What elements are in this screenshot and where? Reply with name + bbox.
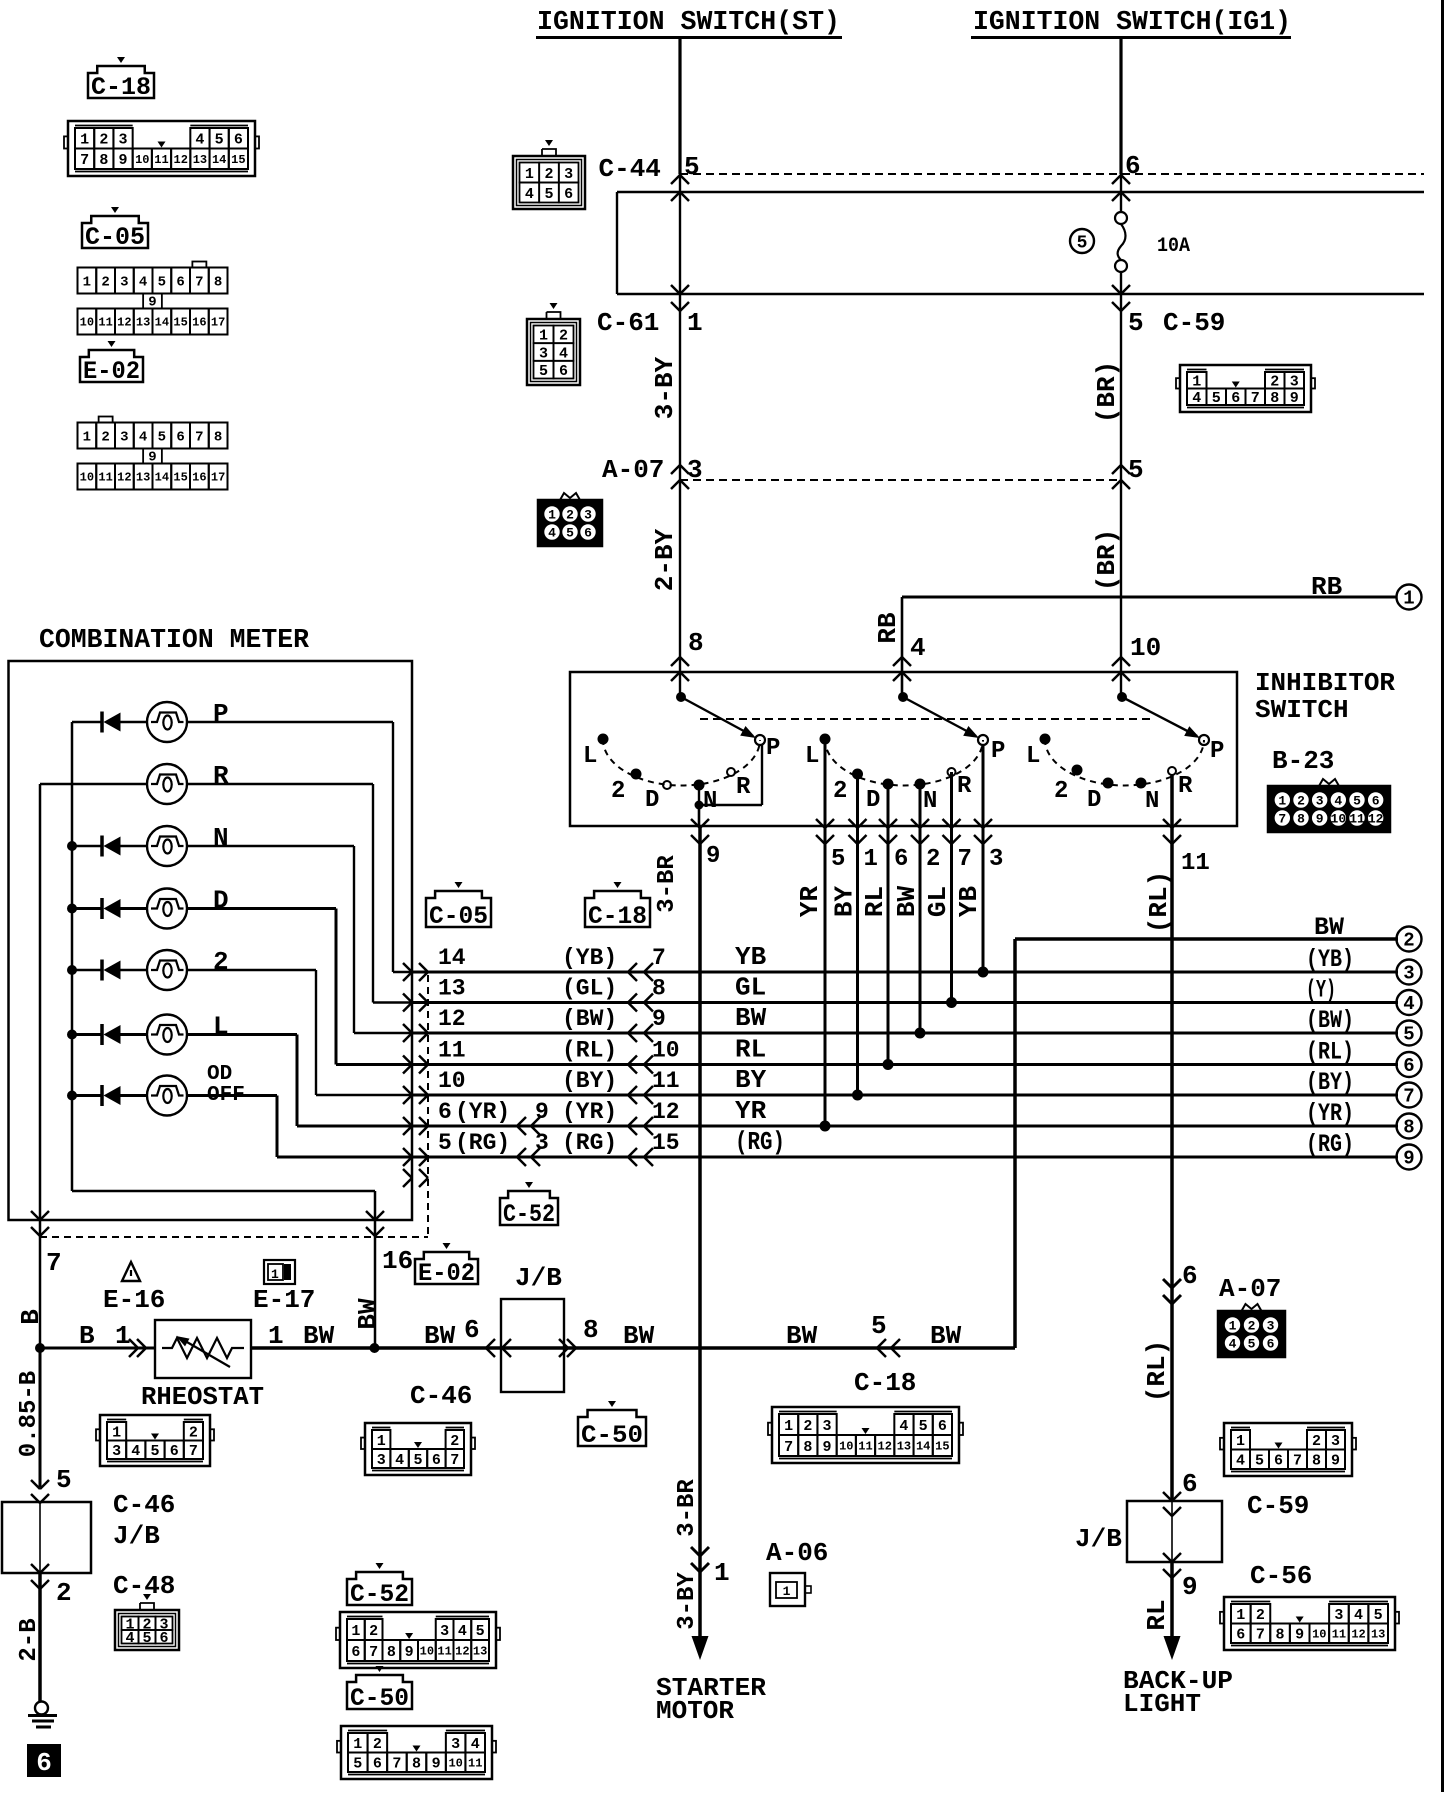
svg-text:1: 1 — [1236, 1607, 1245, 1624]
svg-text:6: 6 — [1274, 1453, 1283, 1470]
svg-text:8: 8 — [583, 1315, 599, 1345]
svg-text:12: 12 — [1351, 1627, 1365, 1641]
svg-text:3: 3 — [1331, 1433, 1340, 1450]
svg-text:6: 6 — [1182, 1261, 1198, 1291]
svg-text:7: 7 — [46, 1248, 62, 1278]
svg-text:6: 6 — [1231, 390, 1240, 407]
svg-text:(GL): (GL) — [562, 976, 617, 1002]
svg-text:C-59: C-59 — [1247, 1491, 1309, 1521]
svg-text:BW: BW — [353, 1298, 383, 1330]
svg-text:3: 3 — [112, 1443, 121, 1460]
svg-text:6: 6 — [176, 429, 184, 445]
svg-text:6: 6 — [584, 526, 592, 541]
svg-text:6: 6 — [432, 1452, 441, 1469]
svg-text:RB: RB — [1311, 572, 1343, 602]
svg-text:6: 6 — [464, 1315, 480, 1345]
svg-text:RL: RL — [735, 1035, 766, 1065]
svg-text:(RL): (RL) — [562, 1038, 617, 1064]
svg-text:C-61: C-61 — [597, 308, 659, 338]
svg-text:BW: BW — [786, 1321, 818, 1351]
svg-text:C-46: C-46 — [113, 1490, 175, 1520]
svg-text:13: 13 — [438, 976, 466, 1002]
svg-text:8: 8 — [1403, 1117, 1414, 1139]
svg-text:9: 9 — [119, 152, 128, 169]
svg-text:6: 6 — [234, 132, 243, 149]
svg-text:7: 7 — [392, 1756, 401, 1773]
svg-text:(BY): (BY) — [562, 1068, 617, 1094]
svg-text:C-46: C-46 — [410, 1381, 472, 1411]
svg-text:E-02: E-02 — [418, 1259, 475, 1288]
svg-text:5: 5 — [1255, 1453, 1264, 1470]
svg-text:N: N — [923, 788, 937, 815]
svg-text:11: 11 — [98, 471, 112, 485]
svg-text:2: 2 — [369, 1623, 378, 1640]
svg-text:(RL): (RL) — [1144, 871, 1174, 933]
svg-text:2: 2 — [803, 1418, 812, 1435]
svg-text:10A: 10A — [1157, 235, 1190, 258]
svg-text:6: 6 — [564, 186, 573, 203]
svg-text:C-59: C-59 — [1163, 308, 1225, 338]
svg-text:6: 6 — [1403, 1055, 1414, 1077]
svg-text:INHIBITOR: INHIBITOR — [1255, 668, 1395, 698]
svg-text:1: 1 — [714, 1558, 730, 1588]
svg-text:6: 6 — [159, 1630, 168, 1647]
svg-text:4: 4 — [131, 1443, 140, 1460]
svg-text:2: 2 — [1403, 930, 1414, 952]
svg-text:(YR): (YR) — [455, 1099, 510, 1125]
svg-text:8: 8 — [1276, 1627, 1285, 1644]
svg-text:5: 5 — [566, 526, 574, 541]
svg-text:C-18: C-18 — [854, 1368, 916, 1398]
svg-text:9: 9 — [1182, 1572, 1198, 1602]
svg-text:1: 1 — [83, 429, 91, 445]
svg-text:(BW): (BW) — [1306, 1006, 1354, 1035]
svg-text:10: 10 — [448, 1756, 462, 1770]
svg-text:6: 6 — [1267, 1337, 1275, 1352]
svg-text:17: 17 — [211, 471, 225, 485]
svg-text:17: 17 — [211, 316, 225, 330]
svg-text:RHEOSTAT: RHEOSTAT — [141, 1382, 264, 1412]
svg-text:1: 1 — [864, 846, 878, 873]
svg-text:5: 5 — [1353, 794, 1361, 809]
svg-text:3: 3 — [1290, 374, 1299, 391]
svg-text:9: 9 — [405, 1644, 414, 1661]
svg-text:2: 2 — [1297, 794, 1305, 809]
svg-text:13: 13 — [193, 153, 207, 167]
svg-text:11: 11 — [1349, 812, 1365, 827]
svg-text:7: 7 — [369, 1644, 378, 1661]
svg-text:YB: YB — [735, 942, 767, 972]
svg-text:C-52: C-52 — [503, 1200, 555, 1229]
svg-text:BW: BW — [303, 1321, 335, 1351]
svg-text:RL: RL — [860, 886, 890, 917]
svg-text:2: 2 — [559, 328, 568, 345]
svg-text:10: 10 — [652, 1038, 680, 1064]
svg-text:BW: BW — [892, 886, 922, 918]
svg-text:14: 14 — [916, 1440, 930, 1454]
svg-text:GL: GL — [923, 886, 953, 917]
svg-text:2-BY: 2-BY — [650, 528, 680, 591]
svg-text:3-BY: 3-BY — [674, 1572, 701, 1630]
svg-text:4: 4 — [559, 345, 568, 362]
svg-text:N: N — [703, 788, 717, 815]
svg-text:9: 9 — [706, 843, 720, 870]
svg-text:4: 4 — [1403, 993, 1414, 1015]
svg-text:E-16: E-16 — [103, 1285, 165, 1315]
svg-text:6: 6 — [170, 1443, 179, 1460]
svg-text:2: 2 — [101, 429, 109, 445]
svg-text:2: 2 — [1312, 1433, 1321, 1450]
svg-text:(RG): (RG) — [1306, 1130, 1354, 1159]
svg-text:1: 1 — [1192, 374, 1201, 391]
svg-text:1: 1 — [1229, 1319, 1237, 1334]
svg-text:1: 1 — [687, 308, 703, 338]
svg-text:6: 6 — [1236, 1627, 1245, 1644]
svg-text:3: 3 — [564, 166, 573, 183]
svg-text:6: 6 — [373, 1756, 382, 1773]
svg-text:7: 7 — [450, 1452, 459, 1469]
svg-text:13: 13 — [136, 316, 150, 330]
svg-text:8: 8 — [803, 1439, 812, 1456]
svg-text:12: 12 — [455, 1645, 469, 1659]
svg-text:1: 1 — [1236, 1433, 1245, 1450]
svg-text:4: 4 — [1236, 1453, 1245, 1470]
svg-text:1: 1 — [525, 166, 534, 183]
svg-text:1: 1 — [1403, 588, 1414, 610]
svg-text:5: 5 — [56, 1465, 72, 1495]
svg-text:12: 12 — [174, 153, 188, 167]
svg-text:10: 10 — [839, 1440, 853, 1454]
svg-text:1: 1 — [784, 1418, 793, 1435]
svg-text:BY: BY — [830, 886, 860, 918]
svg-text:15: 15 — [935, 1440, 949, 1454]
svg-text:2: 2 — [56, 1578, 72, 1608]
svg-text:MOTOR: MOTOR — [656, 1696, 734, 1726]
svg-text:SWITCH: SWITCH — [1255, 695, 1349, 725]
svg-text:2: 2 — [833, 778, 847, 805]
svg-text:J/B: J/B — [515, 1263, 562, 1293]
svg-text:10: 10 — [1130, 633, 1161, 663]
svg-text:N: N — [213, 823, 229, 853]
svg-text:J/B: J/B — [113, 1521, 160, 1551]
svg-text:9: 9 — [1290, 390, 1299, 407]
svg-text:IGNITION SWITCH(ST): IGNITION SWITCH(ST) — [537, 7, 840, 37]
svg-text:5: 5 — [1403, 1024, 1414, 1046]
svg-text:5: 5 — [1077, 233, 1088, 253]
svg-text:(YR): (YR) — [1306, 1099, 1354, 1128]
svg-text:2: 2 — [1054, 778, 1068, 805]
svg-text:11: 11 — [1332, 1627, 1346, 1641]
svg-text:7: 7 — [1251, 390, 1260, 407]
svg-text:16: 16 — [382, 1246, 413, 1276]
svg-text:11: 11 — [154, 153, 168, 167]
svg-text:R: R — [213, 761, 229, 791]
svg-text:9: 9 — [535, 1099, 549, 1125]
svg-text:7: 7 — [652, 945, 666, 971]
svg-text:1: 1 — [271, 1267, 279, 1282]
svg-text:1: 1 — [548, 508, 556, 523]
svg-text:5: 5 — [1128, 455, 1144, 485]
svg-text:10: 10 — [438, 1068, 466, 1094]
svg-text:(BY): (BY) — [1306, 1068, 1354, 1097]
svg-text:1: 1 — [112, 1425, 121, 1442]
svg-text:C-05: C-05 — [85, 223, 145, 252]
svg-text:C-18: C-18 — [91, 73, 151, 102]
svg-text:12: 12 — [878, 1440, 892, 1454]
svg-text:11: 11 — [468, 1756, 482, 1770]
svg-text:5: 5 — [142, 1630, 151, 1647]
svg-text:8: 8 — [652, 976, 666, 1002]
svg-text:3: 3 — [539, 345, 548, 362]
svg-text:5: 5 — [438, 1130, 452, 1156]
svg-text:3-BR: 3-BR — [654, 855, 681, 913]
svg-text:E-17: E-17 — [253, 1285, 315, 1315]
svg-text:2: 2 — [450, 1433, 459, 1450]
svg-text:7: 7 — [80, 152, 89, 169]
svg-text:5: 5 — [831, 846, 845, 873]
svg-text:6: 6 — [1182, 1469, 1198, 1499]
svg-text:OD: OD — [207, 1063, 232, 1086]
svg-text:7: 7 — [1293, 1453, 1302, 1470]
svg-text:0.85-B: 0.85-B — [16, 1371, 43, 1457]
svg-text:14: 14 — [438, 945, 466, 971]
svg-text:6: 6 — [894, 846, 908, 873]
svg-text:13: 13 — [1371, 1627, 1385, 1641]
svg-text:15: 15 — [173, 471, 187, 485]
svg-text:C-52: C-52 — [350, 1580, 409, 1609]
svg-text:YR: YR — [735, 1096, 767, 1126]
svg-text:2: 2 — [99, 132, 108, 149]
svg-text:L: L — [805, 743, 819, 770]
svg-text:3: 3 — [535, 1130, 549, 1156]
svg-text:6: 6 — [351, 1644, 360, 1661]
svg-text:4: 4 — [195, 132, 204, 149]
svg-text:4: 4 — [899, 1418, 908, 1435]
svg-text:7: 7 — [1278, 812, 1286, 827]
svg-text:1: 1 — [377, 1433, 386, 1450]
svg-text:8: 8 — [1270, 390, 1279, 407]
svg-text:5: 5 — [539, 363, 548, 380]
svg-text:C-48: C-48 — [113, 1571, 175, 1601]
svg-text:BW: BW — [930, 1321, 962, 1351]
svg-text:3: 3 — [584, 508, 592, 523]
svg-text:(YB): (YB) — [562, 945, 617, 971]
svg-text:11: 11 — [1181, 850, 1210, 877]
svg-text:10: 10 — [1312, 1627, 1326, 1641]
svg-text:(RG): (RG) — [562, 1130, 617, 1156]
svg-text:1: 1 — [539, 328, 548, 345]
svg-text:6: 6 — [938, 1418, 947, 1435]
svg-text:C-05: C-05 — [429, 902, 488, 931]
svg-text:N: N — [1145, 788, 1159, 815]
svg-text:4: 4 — [458, 1623, 467, 1640]
svg-text:1: 1 — [80, 132, 89, 149]
svg-text:3: 3 — [989, 846, 1003, 873]
svg-text:2: 2 — [373, 1736, 382, 1753]
svg-text:BY: BY — [735, 1065, 767, 1095]
svg-text:3: 3 — [1403, 963, 1414, 985]
svg-text:9: 9 — [823, 1439, 832, 1456]
svg-text:9: 9 — [1316, 812, 1324, 827]
svg-text:(RG): (RG) — [455, 1130, 510, 1156]
svg-text:3: 3 — [823, 1418, 832, 1435]
svg-text:BW: BW — [1314, 913, 1344, 942]
svg-text:B: B — [79, 1321, 95, 1351]
svg-text:5: 5 — [871, 1311, 887, 1341]
svg-text:D: D — [1087, 787, 1101, 814]
svg-text:9: 9 — [1403, 1148, 1414, 1170]
svg-text:5: 5 — [1374, 1607, 1383, 1624]
svg-text:J/B: J/B — [1075, 1524, 1122, 1554]
svg-text:6: 6 — [176, 274, 184, 290]
svg-text:2: 2 — [611, 778, 625, 805]
svg-text:(RG): (RG) — [735, 1127, 785, 1157]
svg-text:3: 3 — [120, 274, 128, 290]
svg-text:1: 1 — [115, 1321, 131, 1351]
svg-text:5: 5 — [1248, 1337, 1256, 1352]
svg-text:1: 1 — [83, 274, 91, 290]
svg-text:7: 7 — [195, 429, 203, 445]
svg-text:9: 9 — [1331, 1453, 1340, 1470]
svg-text:2-B: 2-B — [16, 1618, 43, 1661]
svg-text:2: 2 — [566, 508, 574, 523]
svg-text:R: R — [736, 774, 751, 801]
svg-text:5: 5 — [1212, 390, 1221, 407]
svg-text:4: 4 — [1334, 794, 1342, 809]
svg-text:4: 4 — [139, 429, 147, 445]
svg-text:2: 2 — [544, 166, 553, 183]
svg-text:11: 11 — [858, 1440, 872, 1454]
svg-text:7: 7 — [1403, 1086, 1414, 1108]
svg-text:4: 4 — [125, 1630, 134, 1647]
svg-text:12: 12 — [117, 316, 131, 330]
svg-text:3: 3 — [377, 1452, 386, 1469]
svg-text:(RL): (RL) — [1306, 1038, 1354, 1067]
svg-text:2: 2 — [1270, 374, 1279, 391]
svg-text:(Y): (Y) — [1306, 976, 1336, 1005]
svg-text:2: 2 — [1256, 1607, 1265, 1624]
svg-text:14: 14 — [212, 153, 226, 167]
svg-text:5: 5 — [684, 152, 700, 182]
svg-text:2: 2 — [101, 274, 109, 290]
svg-text:7: 7 — [784, 1439, 793, 1456]
svg-text:13: 13 — [473, 1645, 487, 1659]
svg-text:10: 10 — [80, 471, 94, 485]
svg-text:4: 4 — [395, 1452, 404, 1469]
svg-text:R: R — [957, 773, 972, 800]
svg-text:BW: BW — [735, 1003, 767, 1033]
svg-text:9: 9 — [652, 1006, 666, 1032]
svg-text:4: 4 — [1354, 1607, 1363, 1624]
svg-text:14: 14 — [155, 471, 169, 485]
svg-text:3: 3 — [687, 455, 703, 485]
svg-text:3: 3 — [440, 1623, 449, 1640]
svg-text:2: 2 — [926, 846, 940, 873]
svg-text:C-56: C-56 — [1250, 1561, 1312, 1591]
svg-text:16: 16 — [192, 316, 206, 330]
svg-text:7: 7 — [958, 846, 972, 873]
svg-text:6: 6 — [1372, 794, 1380, 809]
svg-text:6: 6 — [559, 363, 568, 380]
svg-text:E-02: E-02 — [83, 357, 140, 386]
svg-text:11: 11 — [438, 1038, 466, 1064]
svg-text:3: 3 — [1334, 1607, 1343, 1624]
svg-text:5: 5 — [158, 274, 166, 290]
svg-text:1: 1 — [351, 1623, 360, 1640]
svg-text:3: 3 — [1267, 1319, 1275, 1334]
svg-text:7: 7 — [195, 274, 203, 290]
svg-text:10: 10 — [135, 153, 149, 167]
svg-text:C-44: C-44 — [599, 154, 661, 184]
svg-text:6: 6 — [1125, 151, 1141, 181]
svg-text:12: 12 — [652, 1099, 680, 1125]
svg-text:P: P — [1210, 738, 1224, 765]
svg-text:12: 12 — [1368, 812, 1384, 827]
svg-text:6: 6 — [36, 1748, 52, 1778]
svg-text:B-23: B-23 — [1272, 746, 1334, 776]
svg-text:L: L — [213, 1012, 229, 1042]
svg-text:D: D — [213, 886, 229, 916]
svg-text:C-18: C-18 — [588, 902, 647, 931]
svg-text:2: 2 — [1248, 1319, 1256, 1334]
svg-text:5: 5 — [158, 429, 166, 445]
svg-text:4: 4 — [1229, 1337, 1237, 1352]
svg-text:11: 11 — [98, 316, 112, 330]
svg-text:15: 15 — [652, 1130, 680, 1156]
svg-text:1: 1 — [268, 1321, 284, 1351]
svg-text:A-07: A-07 — [1219, 1274, 1281, 1304]
svg-text:RL: RL — [1142, 1599, 1172, 1630]
svg-text:P: P — [991, 738, 1005, 765]
svg-text:10: 10 — [420, 1645, 434, 1659]
svg-text:2: 2 — [189, 1425, 198, 1442]
svg-text:L: L — [583, 743, 597, 770]
svg-text:OFF: OFF — [207, 1084, 245, 1107]
svg-text:15: 15 — [173, 316, 187, 330]
svg-text:L: L — [1026, 743, 1040, 770]
svg-text:4: 4 — [525, 186, 534, 203]
svg-text:3: 3 — [451, 1736, 460, 1753]
svg-text:8: 8 — [214, 274, 222, 290]
svg-text:12: 12 — [438, 1006, 466, 1032]
svg-text:5: 5 — [215, 132, 224, 149]
svg-text:7: 7 — [1256, 1627, 1265, 1644]
svg-text:BW: BW — [424, 1321, 456, 1351]
svg-text:5: 5 — [1128, 308, 1144, 338]
svg-text:8: 8 — [1297, 812, 1305, 827]
svg-text:4: 4 — [471, 1736, 480, 1753]
svg-text:(RL): (RL) — [1142, 1340, 1172, 1402]
svg-text:5: 5 — [353, 1756, 362, 1773]
svg-text:YB: YB — [954, 886, 984, 918]
svg-text:10: 10 — [1331, 812, 1347, 827]
svg-text:YR: YR — [795, 886, 825, 918]
svg-text:COMBINATION METER: COMBINATION METER — [39, 625, 309, 655]
svg-text:RB: RB — [873, 612, 903, 644]
svg-text:4: 4 — [548, 526, 556, 541]
svg-text:5: 5 — [919, 1418, 928, 1435]
svg-text:11: 11 — [652, 1068, 680, 1094]
svg-text:B: B — [16, 1309, 46, 1325]
svg-text:11: 11 — [437, 1645, 451, 1659]
svg-text:9: 9 — [148, 295, 156, 311]
svg-text:8: 8 — [214, 429, 222, 445]
svg-text:P: P — [766, 735, 780, 762]
svg-text:4: 4 — [139, 274, 147, 290]
svg-text:C-50: C-50 — [350, 1684, 409, 1713]
svg-text:(YB): (YB) — [1306, 945, 1354, 974]
svg-text:5: 5 — [476, 1623, 485, 1640]
